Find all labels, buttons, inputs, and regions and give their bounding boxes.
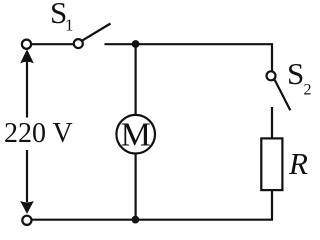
terminal (bottom-left supply terminal) — [22, 216, 31, 225]
wire (S1 to top junction) — [105, 43, 136, 45]
terminal (top-left supply terminal) — [22, 40, 31, 49]
wire (top-left terminal to S1 contact) — [31, 43, 74, 45]
voltage source 220 V (double-headed arrow between terminals) — [20, 49, 34, 214]
wire (motor M to bottom junction) — [135, 155, 137, 220]
svg-text:2: 2 — [304, 82, 312, 99]
resistor R — [261, 138, 282, 190]
wire (motor branch: top junction down to motor M) — [135, 44, 137, 114]
svg-text:S: S — [287, 56, 304, 91]
junction (bottom node) — [132, 216, 140, 224]
wire (top junction to top-right corner, then down to S2) — [136, 44, 272, 71]
label R — [288, 146, 308, 181]
svg-text:M: M — [121, 116, 151, 153]
motor M — [116, 115, 155, 154]
junction (top node) — [132, 40, 140, 48]
switch S1 — [74, 24, 111, 49]
value label 220 V — [4, 118, 73, 149]
wire (S2 to resistor R top) — [271, 107, 273, 138]
wire (bottom junction to bottom-left terminal) — [32, 219, 136, 221]
svg-text:1: 1 — [65, 16, 74, 35]
switch S2 — [267, 71, 291, 110]
wire (resistor R bottom to bottom-right corner, then left to bottom junction) — [135, 190, 272, 220]
svg-text:220 V: 220 V — [4, 118, 73, 149]
label S2 — [287, 56, 312, 99]
svg-text:R: R — [288, 146, 308, 181]
label S1 — [50, 0, 74, 35]
